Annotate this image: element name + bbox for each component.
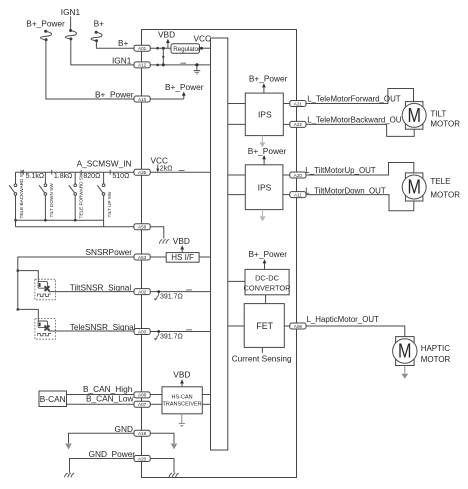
svg-text:A10: A10 — [138, 97, 147, 102]
transceiver U5 HS-CAN — [162, 387, 202, 414]
svg-text:IPS: IPS — [258, 182, 272, 192]
junction dot — [162, 56, 164, 58]
junction dot — [157, 290, 160, 293]
wire bus drop — [15, 220, 17, 227]
svg-text:HS-CAN: HS-CAN — [172, 394, 193, 400]
wire A02 to MCU — [150, 291, 210, 293]
power arrow B+_Power at A10 — [150, 92, 186, 99]
wire A53 to HS I/F — [150, 256, 166, 258]
junction dot sensor feed 2 — [17, 308, 20, 311]
svg-text:A35: A35 — [138, 170, 147, 175]
pin A03 — [134, 329, 150, 335]
pin A20 — [134, 456, 150, 462]
label TELE MOTOR — [430, 177, 460, 199]
pin A02 — [134, 289, 150, 295]
wire regulator to MCU — [200, 47, 211, 49]
wire A07 to transceiver — [150, 403, 162, 405]
resistor R1 2k pull-up — [156, 165, 172, 173]
svg-text:A_SCMSW_IN: A_SCMSW_IN — [77, 158, 132, 168]
svg-text:1.8kΩ: 1.8kΩ — [54, 173, 72, 180]
junction dot — [157, 330, 160, 333]
svg-text:MOTOR: MOTOR — [421, 355, 451, 364]
wire tele sensor signal to pin A03 — [49, 330, 134, 332]
wire GND right — [150, 433, 174, 443]
ground arrow G5 — [65, 444, 72, 450]
wire A22 to tilt motor — [306, 124, 414, 136]
driver U6 IPS — [245, 93, 283, 136]
wire A03 to MCU — [150, 331, 210, 333]
power arrow VBD — [166, 39, 170, 48]
ground arrow G6 — [171, 444, 178, 450]
fuse F3 — [91, 31, 102, 42]
wire A08 to haptic motor — [306, 326, 405, 337]
pin A12 — [134, 62, 150, 68]
svg-text:A58: A58 — [138, 225, 147, 230]
label HAPTIC MOTOR — [421, 344, 451, 364]
wire GND left — [69, 433, 135, 443]
resistor R2 391.7 — [154, 292, 183, 300]
resistor value 510 — [110, 170, 129, 180]
svg-text:A02: A02 — [138, 289, 147, 294]
wire F3 to pin A01 — [96, 41, 134, 49]
wire DC-DC to FET — [265, 295, 267, 304]
svg-text:TELE: TELE — [430, 177, 450, 186]
wire switch bus to pin A35 — [16, 171, 135, 173]
junction dot sensor feed 1 — [17, 269, 20, 272]
resistor value 5.1k — [23, 170, 44, 180]
wire A35 to MCU — [150, 171, 210, 173]
svg-text:B+_Power: B+_Power — [249, 74, 288, 84]
svg-text:IGN1: IGN1 — [112, 56, 132, 66]
switch SW1 TELE BACKWARD — [9, 172, 17, 220]
svg-text:MOTOR: MOTOR — [430, 191, 460, 200]
svg-text:A06: A06 — [138, 393, 147, 398]
inline component mark — [180, 62, 186, 64]
svg-text:820Ω: 820Ω — [83, 173, 100, 180]
svg-text:TILT UP SW: TILT UP SW — [107, 191, 112, 217]
svg-text:VBD: VBD — [173, 370, 190, 380]
power arrow VBD to transceiver — [180, 379, 184, 387]
svg-text:VCC: VCC — [151, 156, 169, 166]
svg-text:Regulator: Regulator — [173, 46, 200, 53]
wire MCU to IPS1 in1 — [228, 103, 246, 105]
svg-text:B_CAN_Low: B_CAN_Low — [86, 394, 135, 404]
svg-text:TILT DOWN SW: TILT DOWN SW — [49, 183, 54, 218]
svg-text:B+_Power: B+_Power — [95, 90, 134, 100]
wire MCU to IPS1 in2 — [228, 123, 246, 125]
svg-text:A21: A21 — [294, 101, 303, 106]
transistor U9 FET — [244, 304, 284, 348]
driver U7 IPS — [245, 165, 283, 210]
inline component mark — [186, 329, 192, 331]
switch SW4 TILT UP — [97, 172, 105, 227]
pin A01 — [134, 45, 150, 51]
svg-text:A11: A11 — [294, 192, 302, 197]
wire A12 to MCU — [150, 64, 211, 66]
junction dot — [156, 64, 159, 67]
junction dot SW2 — [44, 219, 47, 222]
svg-text:B+_Power: B+_Power — [26, 19, 65, 29]
svg-text:A07: A07 — [138, 402, 147, 407]
motor M3 HAPTIC — [393, 337, 417, 366]
junction dot — [162, 63, 165, 66]
pin A06 — [134, 392, 150, 398]
svg-text:L_HapticMotor_OUT: L_HapticMotor_OUT — [307, 315, 380, 324]
svg-text:GND: GND — [115, 424, 133, 434]
junction dot SW3 — [74, 219, 77, 222]
wire IPS2 to pin A20 — [283, 174, 290, 176]
wire A06 to transceiver — [150, 394, 162, 396]
fuse F1 — [40, 30, 51, 42]
svg-text:DC-DC: DC-DC — [255, 273, 279, 282]
converter U8 DC-DC — [244, 269, 291, 294]
svg-text:TELE BACKWARD SW: TELE BACKWARD SW — [19, 169, 24, 218]
wire F1 to pin A10 — [46, 40, 134, 99]
svg-text:A20: A20 — [294, 173, 303, 178]
svg-text:B+: B+ — [94, 19, 105, 29]
wire HS I/F to MCU — [199, 256, 210, 258]
pin A11 — [290, 192, 306, 198]
junction dot — [195, 63, 198, 66]
pin A20 (right) — [290, 172, 306, 178]
pin A19 — [134, 430, 150, 436]
svg-text:IPS: IPS — [258, 110, 272, 120]
wire A01 to regulator — [150, 47, 171, 49]
svg-text:L_TeleMotorBackward_OUT: L_TeleMotorBackward_OUT — [307, 115, 406, 124]
wire B_CAN_Low — [67, 403, 135, 405]
svg-text:A20: A20 — [138, 456, 147, 461]
svg-text:A19: A19 — [138, 431, 147, 436]
switch SW3 TELE FORWARD — [69, 172, 77, 220]
sensor B1 TiltSNSR — [35, 279, 56, 300]
MCU column U3 — [211, 38, 228, 450]
wire B_CAN_High — [67, 394, 135, 396]
svg-text:MOTOR: MOTOR — [430, 120, 460, 129]
resistor value 820 — [81, 170, 100, 180]
svg-text:2kΩ: 2kΩ — [160, 166, 173, 173]
wire A11 to tele motor — [306, 195, 414, 211]
pin A08 — [290, 323, 306, 329]
svg-text:5.1kΩ: 5.1kΩ — [26, 173, 44, 180]
svg-text:IGN1: IGN1 — [61, 7, 81, 17]
motor M2 TELE — [402, 173, 426, 201]
interface U4 HS I/F — [166, 253, 199, 263]
chassis ground G8 — [169, 473, 178, 477]
wire to pin A58 — [16, 226, 135, 228]
sensor B2 TeleSNSR — [35, 319, 56, 340]
chassis ground G3 — [159, 240, 168, 244]
wire MCU to IPS2 in2 — [228, 194, 246, 196]
wire MCU to FET — [228, 325, 244, 327]
svg-text:GND_Power: GND_Power — [89, 449, 136, 459]
wire A21 to tilt motor — [306, 89, 414, 104]
svg-text:CONVERTOR: CONVERTOR — [244, 283, 291, 292]
ECU outer box — [142, 30, 297, 478]
pin A07 — [134, 401, 150, 407]
wire A20 to tele motor — [306, 163, 414, 176]
svg-text:HAPTIC: HAPTIC — [421, 344, 451, 353]
svg-text:TILT: TILT — [430, 109, 446, 118]
ground G1 — [194, 65, 201, 74]
resistor value 1.8k — [52, 170, 73, 180]
fuse F2 — [65, 17, 76, 41]
ground arrow G11 haptic — [401, 366, 408, 379]
svg-text:A03: A03 — [138, 329, 147, 334]
svg-text:B+_Power: B+_Power — [248, 146, 287, 156]
regulator U2 — [171, 44, 200, 53]
svg-text:A01: A01 — [138, 46, 147, 51]
wire SNSRPower — [18, 257, 134, 309]
junction dot — [162, 47, 165, 50]
junction dot VCC node — [200, 47, 203, 50]
wire IPS2 to pin A11 — [283, 194, 290, 196]
svg-text:A12: A12 — [138, 63, 147, 68]
svg-text:391.7Ω: 391.7Ω — [160, 294, 183, 301]
wire switch bottom bus — [16, 219, 104, 221]
svg-text:391.7Ω: 391.7Ω — [160, 334, 183, 341]
svg-text:M: M — [407, 105, 421, 127]
ground arrow G10 IPS2 — [260, 210, 266, 222]
svg-text:B-CAN: B-CAN — [40, 394, 66, 404]
wire tilt sensor signal to pin A02 — [49, 291, 134, 293]
motor M1 TILT — [402, 102, 426, 130]
power arrow B+_Power IPS2 — [262, 155, 266, 165]
chassis ground G7 — [65, 473, 74, 477]
wire transceiver to MCU low — [202, 403, 210, 405]
svg-text:HS I/F: HS I/F — [171, 253, 194, 262]
svg-text:FET: FET — [256, 321, 273, 331]
svg-text:B+: B+ — [118, 38, 129, 48]
wire GND_Power left — [70, 459, 135, 473]
svg-text:VBD: VBD — [173, 236, 190, 246]
pin A10 — [134, 96, 150, 102]
svg-text:L_TiltMotorUp_OUT: L_TiltMotorUp_OUT — [305, 166, 375, 175]
wire F2 to pin A12 — [71, 39, 134, 65]
svg-text:M: M — [407, 176, 421, 198]
inline component mark — [186, 289, 192, 291]
pin A22 — [290, 121, 306, 127]
svg-text:B+_Power: B+_Power — [165, 82, 204, 92]
svg-text:L_TeleMotorForward_OUT: L_TeleMotorForward_OUT — [307, 94, 401, 103]
power arrow VBD to HS I/F — [180, 245, 184, 252]
label TILT MOTOR — [430, 109, 460, 128]
pin A35 — [134, 169, 150, 175]
wire MCU to IPS2 in1 — [228, 174, 246, 176]
wire VBD tap vertical — [162, 48, 164, 65]
svg-text:Current Sensing: Current Sensing — [232, 354, 292, 364]
inline component mark — [179, 170, 185, 172]
svg-text:510Ω: 510Ω — [112, 173, 129, 180]
wire GND_Power right — [150, 459, 174, 473]
pin A58 — [134, 224, 150, 230]
wire to tilt sensor — [18, 271, 39, 282]
power arrow B+_Power DC-DC — [263, 259, 267, 269]
ground arrow G9 IPS1 — [259, 136, 265, 148]
svg-text:SNSRPower: SNSRPower — [86, 247, 133, 257]
wire IPS1 to pin A22 — [283, 123, 290, 125]
svg-text:A22: A22 — [294, 122, 303, 127]
wire IPS1 to pin A21 — [283, 103, 290, 105]
svg-text:M: M — [398, 340, 412, 362]
switch SW2 TILT DOWN — [39, 172, 47, 220]
junction dot SW1 — [14, 219, 17, 222]
svg-text:TRANSCEIVER: TRANSCEIVER — [163, 401, 202, 407]
pin A53 — [134, 254, 150, 260]
pin A21 — [290, 101, 306, 107]
junction dot — [156, 47, 159, 50]
wire transceiver to MCU high — [202, 394, 210, 396]
svg-text:B_CAN_High: B_CAN_High — [83, 384, 133, 394]
svg-text:A08: A08 — [294, 324, 303, 329]
resistor R3 391.7 — [154, 332, 183, 340]
wire FET current sense — [261, 347, 263, 352]
wire to tele sensor — [18, 309, 39, 321]
svg-text:VBD: VBD — [158, 30, 175, 40]
wire FET to pin A08 — [284, 325, 290, 327]
ground G4 transceiver — [179, 414, 185, 427]
svg-text:B+_Power: B+_Power — [249, 249, 288, 259]
svg-text:A53: A53 — [138, 255, 147, 260]
module B-CAN — [39, 391, 67, 407]
power arrow B+_Power IPS1 — [262, 83, 266, 93]
wire A58 to chassis — [150, 227, 164, 239]
svg-text:VCC: VCC — [194, 34, 212, 44]
wire MCU to DC-DC — [228, 280, 245, 282]
